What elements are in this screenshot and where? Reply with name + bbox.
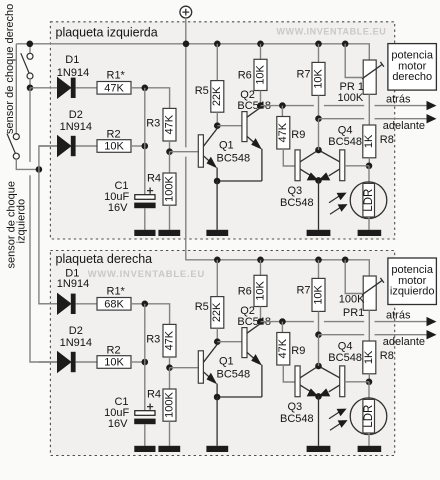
- svg-text:R8: R8: [380, 350, 394, 362]
- svg-text:47K: 47K: [163, 114, 175, 134]
- node switch1 output: [27, 85, 34, 92]
- svg-text:sensor de choque derecho: sensor de choque derecho: [4, 4, 16, 134]
- ground LDR (plaqueta derecha): [358, 446, 382, 452]
- transistor Q2 (plaqueta izquierda): [242, 112, 247, 142]
- svg-text:100K: 100K: [339, 294, 365, 306]
- wire bus to R5 (plaqueta izquierda): [216, 44, 218, 81]
- node Q3/Q4 emitters (plaqueta derecha): [315, 393, 322, 400]
- wire D2 anode row (plaqueta izquierda): [39, 145, 58, 147]
- wire R6 bottom to Q2 collector node (plaqueta izquierda): [260, 91, 262, 106]
- svg-text:R9: R9: [291, 345, 305, 357]
- light arrows into LDR (plaqueta derecha): [329, 411, 340, 418]
- wire base node to Q1 base (plaqueta derecha): [170, 367, 199, 369]
- wire bus junction dots (plaqueta derecha): [214, 257, 221, 264]
- ground Q1/Q2 (plaqueta derecha): [206, 446, 228, 452]
- svg-text:WWW.INVENTABLE.EU: WWW.INVENTABLE.EU: [277, 26, 387, 36]
- svg-text:Q3: Q3: [288, 401, 303, 413]
- node base junction (plaqueta derecha): [166, 364, 173, 371]
- photoresistor LDR (plaqueta derecha): [350, 398, 387, 435]
- node R1/R2 junction (plaqueta derecha): [142, 301, 149, 308]
- wire supply bus (plaqueta izquierda): [16, 44, 369, 60]
- transistor Q3 (plaqueta derecha): [295, 366, 300, 397]
- resistor R6 (plaqueta izquierda): [254, 59, 267, 90]
- wire R7 bottom through atras line (plaqueta derecha): [318, 311, 320, 334]
- wire node to Q2 base (plaqueta derecha): [217, 341, 242, 343]
- arrow adelante (plaqueta izquierda): [427, 114, 437, 123]
- wire Q3/Q4 emitters to ground (plaqueta izquierda): [318, 180, 320, 229]
- wire R2 output to junction (plaqueta izquierda): [131, 145, 145, 147]
- svg-text:10K: 10K: [254, 280, 266, 300]
- label C1 plus sign (plaqueta derecha): [147, 404, 153, 410]
- resistor R4 (plaqueta derecha): [163, 389, 176, 421]
- wire atras output line (plaqueta izquierda): [261, 105, 427, 107]
- diode D2 (plaqueta derecha): [58, 352, 71, 372]
- svg-text:16V: 16V: [108, 202, 128, 214]
- svg-text:R6: R6: [238, 69, 252, 81]
- svg-text:R4: R4: [147, 389, 161, 401]
- capacitor C1 (plaqueta izquierda): [135, 195, 155, 200]
- svg-text:D2: D2: [69, 325, 83, 337]
- wire Q4 base to node (plaqueta izquierda): [345, 165, 369, 167]
- wire C1 to ground (plaqueta izquierda): [144, 208, 146, 230]
- svg-text:plaqueta derecha: plaqueta derecha: [56, 252, 153, 266]
- wire D2 anode row (plaqueta derecha): [39, 361, 58, 363]
- diode D1 (plaqueta derecha): [58, 294, 71, 314]
- wire PR1 bottom to R8 (plaqueta izquierda): [368, 94, 370, 125]
- svg-text:BC548: BC548: [217, 153, 251, 165]
- svg-text:LDR: LDR: [363, 189, 375, 212]
- resistor R4 (plaqueta izquierda): [163, 173, 176, 205]
- svg-text:10K: 10K: [312, 68, 324, 88]
- svg-text:1N914: 1N914: [57, 278, 89, 290]
- transistor Q2 (plaqueta derecha): [242, 328, 247, 358]
- svg-text:BC548: BC548: [328, 352, 362, 364]
- node emitter junction (plaqueta derecha): [214, 394, 221, 401]
- svg-text:47K: 47K: [277, 122, 289, 142]
- wire PR1 bottom to R8 (plaqueta derecha): [368, 310, 370, 341]
- resistor R9 (plaqueta derecha): [277, 333, 290, 366]
- wire D1 anode row (plaqueta izquierda): [30, 87, 58, 89]
- wire R4 to ground (plaqueta izquierda): [169, 205, 171, 230]
- svg-text:R8: R8: [380, 134, 394, 146]
- wire R1 output to R3 top (plaqueta izquierda): [131, 88, 170, 109]
- diode D1 (plaqueta izquierda): [58, 78, 71, 98]
- wire bus to R7 (plaqueta derecha): [318, 260, 320, 279]
- wire base node to Q1 base (plaqueta izquierda): [170, 151, 199, 153]
- label C1 plus sign (plaqueta izquierda): [147, 188, 153, 194]
- switch sensor de choque derecho: [29, 44, 31, 54]
- wire R9 to Q3 base (plaqueta derecha): [283, 365, 295, 382]
- potentiometer PR1 (plaqueta izquierda): [363, 60, 376, 94]
- node sensor izquierdo junction: [36, 166, 43, 173]
- svg-text:100K: 100K: [163, 175, 175, 201]
- svg-text:Q3: Q3: [288, 185, 303, 197]
- wire base node down to R4 (plaqueta derecha): [169, 368, 171, 389]
- capacitor C1 (plaqueta derecha): [135, 411, 155, 416]
- svg-text:16V: 16V: [108, 418, 128, 430]
- svg-text:D1: D1: [65, 54, 79, 66]
- svg-text:1N914: 1N914: [60, 337, 92, 349]
- node R1/R2 junction (plaqueta izquierda): [142, 85, 149, 92]
- svg-text:10K: 10K: [312, 284, 324, 304]
- wire node to LDR (plaqueta derecha): [368, 382, 370, 400]
- switch sensor de choque izquierdo: [15, 44, 17, 134]
- wire D1 anode row (plaqueta derecha): [39, 303, 58, 305]
- svg-text:R5: R5: [195, 85, 209, 97]
- svg-text:R3: R3: [146, 334, 160, 346]
- resistor R6 (plaqueta derecha): [254, 275, 267, 306]
- svg-text:47K: 47K: [163, 330, 175, 350]
- wire bus to R5 (plaqueta derecha): [216, 260, 218, 297]
- wire R5 bottom to collector node (plaqueta izquierda): [216, 112, 218, 126]
- diode D2 (plaqueta izquierda): [58, 136, 71, 156]
- svg-text:LDR: LDR: [363, 405, 375, 428]
- node Q3/Q4 collectors (plaqueta izquierda): [315, 147, 322, 154]
- node Q3/Q4 emitters (plaqueta izquierda): [315, 177, 322, 184]
- svg-text:1N914: 1N914: [57, 67, 89, 79]
- node R7 bottom / adelante (plaqueta izquierda): [315, 115, 322, 122]
- arrow atras (plaqueta derecha): [427, 317, 437, 326]
- wire R9 to Q3 base (plaqueta izquierda): [283, 149, 295, 166]
- svg-text:atrás: atrás: [386, 310, 411, 322]
- resistor R1 (plaqueta derecha): [97, 298, 131, 311]
- wire adelante node to collectors (plaqueta derecha): [318, 335, 320, 366]
- svg-text:R1*: R1*: [107, 70, 126, 82]
- wire Q4 base to node (plaqueta derecha): [345, 381, 369, 383]
- wire R1/R2 junction down to C1 (plaqueta izquierda): [144, 88, 146, 195]
- svg-text:R5: R5: [195, 301, 209, 313]
- wire adelante output line (plaqueta izquierda): [319, 118, 427, 120]
- svg-text:BC548: BC548: [328, 136, 362, 148]
- svg-text:R2: R2: [107, 128, 121, 140]
- resistor R9 (plaqueta izquierda): [277, 117, 290, 150]
- wire D1 cathode to R1 (plaqueta izquierda): [76, 87, 97, 89]
- transistor Q4 (plaqueta derecha): [340, 366, 345, 397]
- svg-text:WWW.INVENTABLE.EU: WWW.INVENTABLE.EU: [88, 268, 205, 279]
- wire R1 output to R3 top (plaqueta derecha): [131, 304, 170, 325]
- node emitter junction (plaqueta izquierda): [214, 178, 221, 185]
- ground Q3/Q4 (plaqueta derecha): [307, 446, 331, 452]
- svg-text:BC548: BC548: [217, 369, 251, 381]
- svg-text:D2: D2: [69, 109, 83, 121]
- wire bus to R6 (plaqueta derecha): [260, 260, 262, 276]
- node R2 junction dot (plaqueta derecha): [142, 359, 149, 366]
- svg-text:BC548: BC548: [280, 413, 314, 425]
- transistor Q4 (plaqueta izquierda): [340, 150, 345, 181]
- svg-text:100K: 100K: [163, 391, 175, 417]
- node Q3/Q4 collectors (plaqueta derecha): [315, 363, 322, 370]
- node R2 junction dot (plaqueta izquierda): [142, 143, 149, 150]
- dashed board outline plaqueta derecha: [50, 251, 394, 456]
- wire R4 to ground (plaqueta derecha): [169, 421, 171, 446]
- resistor R2 (plaqueta izquierda): [97, 140, 131, 153]
- wire Q1/Q2 emitter rail (plaqueta izquierda): [217, 180, 262, 182]
- ground C1 (plaqueta izquierda): [134, 230, 155, 236]
- svg-text:plaqueta izquierda: plaqueta izquierda: [56, 25, 158, 39]
- svg-text:47K: 47K: [104, 82, 124, 94]
- wire junction up to top D2: [39, 146, 58, 169]
- svg-text:R4: R4: [147, 173, 161, 185]
- transistor Q1 (plaqueta izquierda): [198, 135, 203, 167]
- wire R5 bottom to collector node (plaqueta derecha): [216, 328, 218, 342]
- svg-text:derecho: derecho: [392, 71, 432, 83]
- wire Q3/Q4 emitters to ground (plaqueta derecha): [318, 396, 320, 445]
- resistor R7 (plaqueta izquierda): [312, 62, 325, 95]
- resistor R2 (plaqueta derecha): [97, 356, 131, 369]
- svg-text:R1*: R1*: [107, 286, 126, 298]
- svg-text:10K: 10K: [104, 141, 124, 153]
- wire node to Q2 base (plaqueta izquierda): [217, 125, 242, 127]
- wire R1/R2 junction down to C1 (plaqueta derecha): [144, 304, 146, 411]
- node R9 top (plaqueta derecha): [279, 318, 286, 325]
- ground Q3/Q4 (plaqueta izquierda): [307, 230, 331, 236]
- svg-text:BC548: BC548: [280, 197, 314, 209]
- wire R3 bottom to base node (plaqueta derecha): [169, 357, 171, 368]
- svg-text:R9: R9: [291, 129, 305, 141]
- wire bus corner to PR1 wiper (plaqueta izquierda): [345, 44, 362, 78]
- svg-text:atrás: atrás: [386, 94, 411, 106]
- wire bus junction dots (plaqueta izquierda): [27, 41, 34, 48]
- wire adelante output line (plaqueta derecha): [319, 334, 427, 336]
- output box potencia motor (plaqueta izquierda): [388, 44, 437, 91]
- resistor R3 (plaqueta derecha): [163, 324, 176, 357]
- wire D2 cathode to R2 (plaqueta izquierda): [76, 145, 97, 147]
- output box potencia motor (plaqueta derecha): [388, 258, 437, 305]
- svg-text:22K: 22K: [211, 302, 223, 322]
- wire adelante node to collectors (plaqueta izquierda): [318, 119, 320, 150]
- supply terminal +: [180, 6, 192, 18]
- wire emitters to ground (plaqueta izquierda): [216, 181, 218, 230]
- ground LDR (plaqueta izquierda): [358, 230, 382, 236]
- svg-text:adelante: adelante: [383, 336, 425, 348]
- svg-text:Q1: Q1: [219, 356, 234, 368]
- svg-text:47K: 47K: [277, 338, 289, 358]
- wire R8 bottom to LDR node (plaqueta izquierda): [368, 158, 370, 166]
- wire base node down to R4 (plaqueta izquierda): [169, 152, 171, 173]
- node R7 bottom / adelante (plaqueta derecha): [315, 331, 322, 338]
- wire Q1/Q2 emitter rail (plaqueta derecha): [217, 396, 262, 398]
- wire atras output line (plaqueta derecha): [261, 321, 427, 323]
- svg-text:10K: 10K: [254, 64, 266, 84]
- light arrows into LDR (plaqueta izquierda): [329, 195, 340, 202]
- wire supply rail down to both buses: [185, 18, 187, 260]
- svg-text:10K: 10K: [104, 357, 124, 369]
- svg-text:100K: 100K: [338, 92, 364, 104]
- wire bus to R7 (plaqueta izquierda): [318, 44, 320, 63]
- arrow adelante (plaqueta derecha): [427, 330, 437, 339]
- potentiometer PR1 (plaqueta derecha): [363, 276, 376, 310]
- svg-text:izquierdo: izquierdo: [390, 286, 435, 298]
- node R8 / Q4 base / LDR (plaqueta derecha): [366, 379, 373, 386]
- svg-text:R2: R2: [107, 344, 121, 356]
- resistor R5 (plaqueta izquierda): [211, 81, 224, 113]
- wire bus corner to PR1 wiper (plaqueta derecha): [345, 260, 362, 294]
- resistor R7 (plaqueta derecha): [312, 278, 325, 311]
- svg-text:PR1: PR1: [343, 307, 364, 319]
- wire R6 bottom to Q2 collector node (plaqueta derecha): [260, 307, 262, 322]
- resistor R3 (plaqueta izquierda): [163, 108, 176, 141]
- node R9 top (plaqueta izquierda): [279, 102, 286, 109]
- ground R4 (plaqueta derecha): [158, 446, 180, 452]
- node R8 / Q4 base / LDR (plaqueta izquierda): [366, 163, 373, 170]
- wire R3 bottom to base node (plaqueta izquierda): [169, 141, 171, 152]
- ground R4 (plaqueta izquierda): [158, 230, 180, 236]
- svg-text:C1: C1: [114, 396, 128, 408]
- svg-text:Q4: Q4: [338, 341, 353, 353]
- wire R2 output to junction (plaqueta derecha): [131, 361, 145, 363]
- dashed board outline plaqueta izquierda: [50, 22, 394, 239]
- wire D1 cathode to R1 (plaqueta derecha): [76, 303, 97, 305]
- node base junction (plaqueta izquierda): [166, 148, 173, 155]
- wire junction down to bottom D1: [39, 169, 58, 303]
- wire node to LDR (plaqueta izquierda): [368, 166, 370, 184]
- wire node to R9 (plaqueta derecha): [281, 322, 283, 333]
- wire node to R9 (plaqueta izquierda): [281, 106, 283, 117]
- resistor R8 (plaqueta izquierda): [363, 125, 376, 158]
- node Q2 collector (plaqueta izquierda): [257, 102, 264, 109]
- svg-text:R3: R3: [146, 118, 160, 130]
- svg-text:R6: R6: [238, 285, 252, 297]
- wire R8 bottom to LDR node (plaqueta derecha): [368, 374, 370, 382]
- ground C1 (plaqueta derecha): [134, 446, 155, 452]
- wire bus to R6 (plaqueta izquierda): [260, 44, 262, 60]
- resistor R8 (plaqueta derecha): [363, 341, 376, 374]
- svg-text:R7: R7: [296, 69, 310, 81]
- transistor Q1 (plaqueta derecha): [198, 351, 203, 383]
- wire LDR to ground (plaqueta izquierda): [368, 217, 370, 230]
- svg-text:68K: 68K: [104, 298, 124, 310]
- wire D2 cathode to R2 (plaqueta derecha): [76, 361, 97, 363]
- node Q1 collector / Q2 base (plaqueta izquierda): [214, 122, 221, 129]
- svg-text:1K: 1K: [363, 350, 375, 364]
- transistor Q3 (plaqueta izquierda): [295, 150, 300, 181]
- svg-text:1K: 1K: [363, 134, 375, 148]
- wire supply bus (plaqueta derecha): [186, 260, 369, 276]
- resistor R1 (plaqueta izquierda): [97, 82, 131, 95]
- arrow atras (plaqueta izquierda): [427, 101, 437, 110]
- svg-text:22K: 22K: [211, 86, 223, 106]
- ground Q1/Q2 (plaqueta izquierda): [206, 230, 228, 236]
- svg-text:R7: R7: [296, 285, 310, 297]
- svg-text:C1: C1: [114, 180, 128, 192]
- svg-text:adelante: adelante: [383, 120, 425, 132]
- wire R7 bottom through atras line (plaqueta izquierda): [318, 95, 320, 118]
- svg-text:izquierdo: izquierdo: [16, 199, 28, 244]
- svg-text:Q1: Q1: [219, 140, 234, 152]
- resistor R5 (plaqueta derecha): [211, 297, 224, 329]
- wire C1 to ground (plaqueta derecha): [144, 424, 146, 446]
- wire switch1 rail down to bottom D2: [30, 88, 58, 362]
- wire LDR to ground (plaqueta derecha): [368, 433, 370, 446]
- node Q1 collector / Q2 base (plaqueta derecha): [214, 338, 221, 345]
- svg-text:1N914: 1N914: [60, 121, 92, 133]
- photoresistor LDR (plaqueta izquierda): [350, 182, 387, 219]
- wire emitters to ground (plaqueta derecha): [216, 397, 218, 446]
- node Q2 collector (plaqueta derecha): [257, 318, 264, 325]
- svg-text:Q4: Q4: [338, 125, 353, 137]
